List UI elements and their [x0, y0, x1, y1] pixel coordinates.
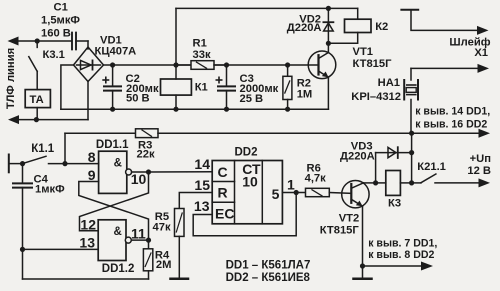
svg-text:КЦ407А: КЦ407А: [95, 46, 137, 58]
svg-text:VT1: VT1: [353, 46, 374, 58]
svg-text:К3.1: К3.1: [43, 49, 65, 61]
svg-text:КТ815Г: КТ815Г: [353, 58, 393, 70]
svg-text:к выв. 14 DD1,: к выв. 14 DD1,: [415, 106, 490, 118]
svg-text:DD1.1: DD1.1: [96, 139, 129, 151]
svg-text:1: 1: [287, 177, 295, 193]
svg-text:+Uп: +Uп: [470, 153, 491, 165]
svg-text:R: R: [218, 185, 228, 201]
svg-text:160 В: 160 В: [41, 27, 71, 39]
svg-text:5: 5: [272, 186, 280, 202]
svg-text:12: 12: [80, 217, 96, 233]
svg-text:НА1: НА1: [378, 77, 400, 89]
svg-text:VT2: VT2: [339, 213, 360, 225]
svg-text:12 В: 12 В: [467, 165, 491, 177]
svg-text:К3: К3: [388, 198, 401, 210]
svg-text:50 В: 50 В: [126, 93, 150, 105]
svg-text:&: &: [114, 157, 122, 169]
svg-text:DD1.2: DD1.2: [102, 263, 135, 275]
svg-text:R1: R1: [193, 38, 207, 50]
svg-text:к выв. 16 DD2: к выв. 16 DD2: [415, 118, 487, 130]
svg-text:DD2 – К561ИЕ8: DD2 – К561ИЕ8: [226, 272, 311, 284]
svg-text:К1: К1: [195, 82, 208, 94]
svg-text:&: &: [114, 226, 122, 238]
svg-text:8: 8: [88, 149, 96, 165]
svg-text:22к: 22к: [137, 149, 155, 161]
svg-text:EC: EC: [215, 206, 234, 222]
svg-text:Д220А: Д220А: [287, 22, 322, 34]
svg-text:C1: C1: [54, 2, 68, 14]
svg-text:X1: X1: [474, 47, 488, 59]
svg-text:К1.1: К1.1: [31, 143, 55, 155]
svg-text:11: 11: [131, 226, 146, 242]
svg-text:13: 13: [79, 235, 95, 251]
svg-text:47к: 47к: [153, 222, 171, 234]
svg-text:к выв. 8 DD2: к выв. 8 DD2: [368, 249, 434, 261]
svg-text:13: 13: [194, 198, 210, 214]
svg-text:1мкФ: 1мкФ: [35, 184, 65, 196]
svg-text:1М: 1М: [297, 89, 313, 101]
svg-text:1,5мкФ: 1,5мкФ: [41, 15, 80, 27]
svg-text:2М: 2М: [156, 259, 172, 271]
svg-text:14: 14: [194, 156, 210, 172]
svg-text:КТ815Г: КТ815Г: [320, 225, 360, 237]
svg-text:DD1 – К561ЛА7: DD1 – К561ЛА7: [226, 259, 311, 271]
svg-text:к выв. 7 DD1,: к выв. 7 DD1,: [368, 238, 437, 250]
svg-text:C: C: [218, 164, 228, 180]
svg-text:KPI–4312: KPI–4312: [351, 91, 401, 103]
svg-text:Д220А: Д220А: [340, 150, 375, 162]
svg-text:ТА: ТА: [30, 94, 44, 106]
svg-text:10: 10: [131, 171, 147, 187]
svg-text:10: 10: [242, 174, 258, 190]
svg-text:К2: К2: [375, 21, 388, 33]
svg-text:ТЛФ линия: ТЛФ линия: [5, 48, 17, 109]
svg-text:DD2: DD2: [235, 147, 258, 159]
svg-text:4,7к: 4,7к: [305, 173, 327, 185]
svg-text:33к: 33к: [193, 49, 211, 61]
svg-text:25 В: 25 В: [240, 93, 264, 105]
svg-text:15: 15: [194, 177, 210, 193]
svg-text:К21.1: К21.1: [417, 161, 446, 173]
svg-text:9: 9: [88, 167, 96, 183]
